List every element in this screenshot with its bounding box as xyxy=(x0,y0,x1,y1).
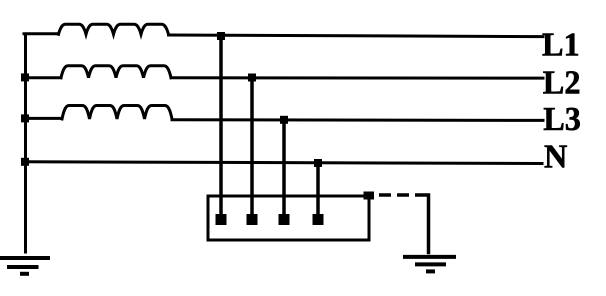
svg-text:L2: L2 xyxy=(543,64,581,102)
svg-text:L3: L3 xyxy=(543,100,581,138)
svg-text:L1: L1 xyxy=(542,26,580,64)
svg-text:N: N xyxy=(544,138,567,176)
